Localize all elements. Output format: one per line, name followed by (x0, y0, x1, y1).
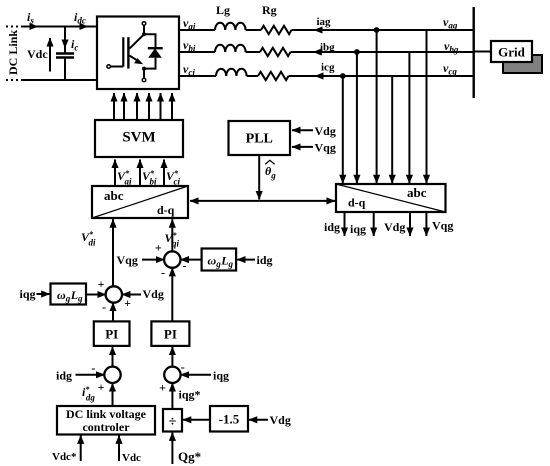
svg-text:Vdc: Vdc (122, 452, 141, 464)
svg-text:÷: ÷ (169, 415, 177, 430)
input iqg to S4 (181, 369, 230, 383)
svg-text:idg: idg (257, 253, 273, 267)
svg-text:iqg: iqg (213, 369, 229, 383)
wire vbg tap to abc block (408, 52, 410, 183)
antiparallel diode D1 (144, 34, 163, 68)
wire omega box 2 to S2 (180, 259, 201, 261)
wire theta_g to dq-abc block (259, 200, 335, 202)
svg-text:PLL: PLL (246, 132, 273, 147)
wire phase c inverter output (179, 75, 473, 77)
SVM box (95, 120, 183, 157)
current arrow ibg (313, 42, 335, 54)
svg-text:Vdg: Vdg (270, 413, 291, 427)
wire theta_g to abc-dq block (190, 200, 259, 202)
svg-text:Grid: Grid (498, 45, 525, 60)
wire V*ai to SVM (115, 160, 132, 187)
svg-text:icg: icg (321, 62, 335, 74)
input idg to S3 (56, 369, 105, 383)
wire -1.5 to divider (183, 419, 210, 421)
wire PI1 to S1 (112, 303, 114, 322)
svg-text:controler: controler (82, 420, 130, 434)
svg-text:DC link voltage: DC link voltage (66, 407, 147, 421)
inductor Lg phase a (215, 23, 246, 30)
svg-text:idg: idg (324, 220, 340, 234)
svg-text:-1.5: -1.5 (219, 412, 240, 427)
PLL input Vdg (292, 124, 336, 138)
omega_g L_g box 2 (202, 249, 237, 271)
svg-text:Vqg: Vqg (315, 141, 336, 155)
input Vdc (119, 435, 141, 464)
svg-text:Vdg: Vdg (384, 220, 405, 234)
wire PI2 to S2 (171, 268, 173, 322)
wire divider to S4 (171, 383, 173, 409)
Grid box (491, 41, 532, 62)
input idg (237, 253, 273, 267)
wire iag tap to abc block (376, 30, 378, 183)
PI controller box 1 (94, 321, 130, 346)
wire vcg tap to abc block (391, 76, 393, 183)
svg-text:idg: idg (56, 369, 72, 383)
divider box (163, 409, 182, 432)
output idg (324, 212, 345, 236)
svg-text:-: - (181, 360, 185, 374)
summing junction S3 (104, 367, 120, 383)
resistor Rg phase c (258, 72, 289, 80)
svg-text:Vqg: Vqg (432, 219, 453, 233)
wire dc top rail (23, 26, 97, 28)
wire S3 to PI1 (112, 347, 114, 368)
current i_c (65, 31, 78, 53)
summing junction S4 (164, 367, 180, 383)
output iqg (350, 212, 374, 236)
svg-text:SVM: SVM (122, 130, 155, 146)
svg-text:Rg: Rg (262, 3, 277, 17)
svg-text:abc: abc (104, 188, 124, 203)
svg-text:ibg: ibg (320, 42, 335, 54)
summing junction S1 (106, 286, 122, 302)
wire V*ci to SVM (164, 160, 181, 187)
wire dc top rail dashed stub (6, 26, 23, 28)
wire V*bi to SVM (140, 160, 157, 187)
node phase b tap (354, 49, 360, 55)
PLL box (229, 121, 291, 155)
inverter box U1 (97, 17, 179, 90)
wire vag tap to abc block (426, 30, 428, 183)
svg-text:-: - (102, 300, 106, 314)
resistor Rg phase b (260, 48, 291, 56)
svg-text:PI: PI (164, 327, 177, 342)
svg-text:Qg*: Qg* (178, 449, 201, 464)
gain -1.5 box (210, 406, 248, 432)
svg-text:d-q: d-q (157, 203, 175, 217)
svg-text:+: + (159, 381, 166, 395)
svg-text:+: + (155, 241, 162, 255)
inductor Lg phase c (216, 69, 247, 76)
svg-text:Vdg: Vdg (143, 287, 164, 301)
wire V*di (81, 219, 113, 287)
svg-text:Vdc: Vdc (27, 47, 48, 61)
svg-text:DC Link: DC Link (6, 30, 20, 75)
input Vqg to S2 (117, 253, 165, 267)
wire DC controller to S3 (112, 383, 114, 406)
wire phase b inverter output (179, 51, 473, 53)
wire dc bottom rail (23, 79, 97, 81)
wire theta_g from PLL (259, 155, 276, 200)
input Vdc* (52, 435, 81, 463)
svg-text:+: + (98, 380, 105, 394)
svg-text:iqg: iqg (20, 287, 36, 301)
input Qg* (172, 432, 201, 464)
grid shadow box (503, 55, 542, 73)
wire S4 to PI2 (171, 347, 173, 368)
svg-text:Lg: Lg (216, 3, 230, 17)
DC link voltage controller box (57, 406, 155, 435)
gate signal arrows SVM to inverter (114, 93, 172, 120)
output Vqg (426, 212, 453, 236)
node phase c tap (340, 73, 346, 79)
PI controller box 2 (151, 321, 189, 346)
IGBT Q1 (107, 22, 146, 82)
wire V*qi (165, 219, 180, 252)
svg-text:abc: abc (407, 185, 427, 200)
input iqg (20, 287, 50, 301)
inductor Lg phase b (215, 45, 246, 52)
svg-text:Vqg: Vqg (117, 253, 138, 267)
svg-text:-: - (161, 266, 165, 280)
svg-text:d-q: d-q (348, 196, 366, 210)
svg-text:PI: PI (105, 327, 118, 342)
abc to dq transform block (left) (92, 186, 188, 218)
current arrow icg (315, 62, 335, 77)
svg-text:iag: iag (317, 16, 332, 28)
current label i_dc (74, 10, 88, 27)
svg-text:iqg*: iqg* (179, 388, 201, 402)
resistor Rg phase a (261, 26, 292, 34)
wire ibg tap to abc block (356, 52, 358, 183)
svg-text:+: + (98, 277, 105, 291)
input Vdg to -1.5 (249, 413, 291, 427)
input Vdg to S1 (122, 287, 164, 301)
dq to abc transform block (right) (336, 184, 446, 212)
svg-text:Vdc*: Vdc* (52, 451, 77, 463)
current arrow iag (314, 16, 331, 30)
omega_g L_g box 1 (51, 284, 87, 305)
current label i_s (27, 10, 38, 27)
Vdc measurement arrow (27, 38, 50, 72)
summing junction S2 (164, 251, 180, 267)
grid bus bar (473, 7, 475, 98)
wire phase a inverter output (179, 29, 473, 31)
node phase a tap (374, 27, 380, 33)
PLL input Vqg (292, 141, 336, 155)
svg-text:iqg: iqg (350, 222, 366, 236)
wire omega box 1 to S1 (86, 294, 106, 296)
wire bus to grid (474, 51, 491, 53)
wire dc bottom rail dashed stub (6, 79, 23, 81)
capacitor C1 (56, 27, 74, 81)
svg-text:-: - (91, 361, 95, 375)
svg-text:Vdg: Vdg (315, 124, 336, 138)
svg-text:+: + (124, 296, 131, 310)
wire icg tap to abc block (342, 76, 344, 183)
output Vdg (384, 212, 410, 236)
